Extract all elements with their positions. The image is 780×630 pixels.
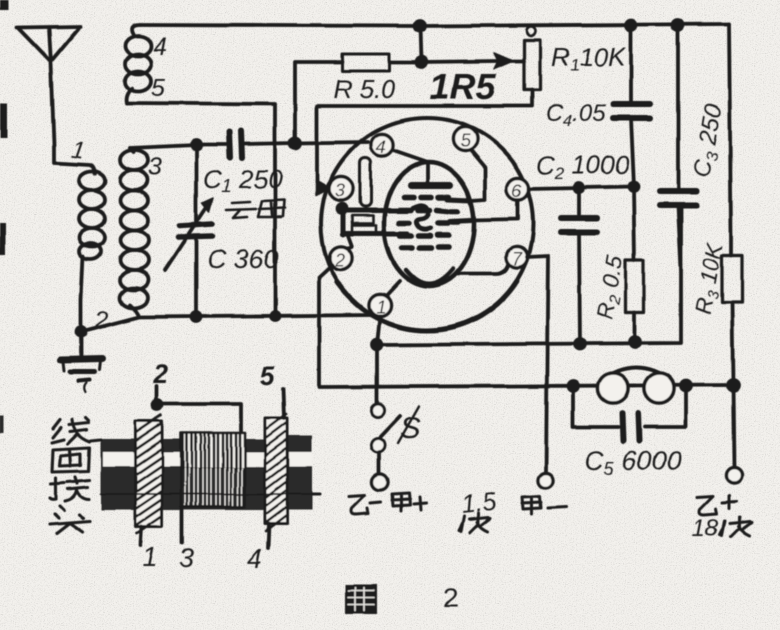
svg-text:4: 4 [247,543,262,573]
junction dot R3 bottom [728,380,739,391]
svg-text:R 5.0: R 5.0 [333,74,396,104]
pin 5 [453,127,477,151]
label C 360 [207,244,279,274]
coil former axis line [101,493,312,495]
pin 2 [330,247,353,271]
pin 6 [507,178,529,201]
svg-text:2: 2 [152,359,168,389]
junction top rail to R5 drop [415,21,425,31]
label 1.5 伏 [460,487,498,518]
coil former lead 5 [283,389,284,418]
svg-text:4: 4 [376,137,386,157]
svg-text:3: 3 [148,153,162,181]
svg-text:S: S [400,410,421,445]
junction dot C360 bottom [192,313,201,322]
label 5 tickler [151,74,165,102]
coil former left flange [135,415,162,534]
tube grid dashes row2 [400,210,458,211]
label 1 former [142,542,157,572]
capacitor C1 [229,131,242,158]
junction dot C2 bottom [575,339,585,349]
coil former lead 3 [180,507,184,543]
capacitor C2 [561,189,597,343]
inductor antenna coil [79,172,105,332]
svg-text:2: 2 [334,250,345,270]
resistor R5.0 [295,54,422,143]
junction dot R5 row [417,57,427,67]
tube filament arc [406,269,453,284]
label 乙-甲+ [349,493,427,514]
svg-text:7: 7 [512,249,523,269]
svg-text:R110K: R110K [551,42,627,75]
coil former lead 4 [268,524,269,548]
inductor tuning coil 3 [120,148,148,317]
label 乙+ 18伏 [697,496,736,515]
tube grid dashes row1 [404,194,449,200]
wire pin1 internal [386,281,400,296]
label 1R5 [430,66,497,107]
junction dot R5 drop on grid row [290,138,300,148]
coil former right flange [265,414,287,531]
ground [61,333,102,392]
junction dot pin1 [372,340,382,350]
capacitor C5 [573,386,686,441]
pin 1 [369,294,391,317]
tube plate bar and lead to pin 4 [393,150,450,185]
tube grid dashes row4 [400,235,448,236]
junction dot R2 bottom [630,337,640,347]
pin 7 [507,247,528,270]
label R3 10K [689,239,731,318]
label 3 former [179,543,194,573]
label 1 antenna [70,136,87,165]
label 4 tickler [153,33,167,61]
coil former body [91,435,320,510]
resistor R1 [317,27,540,183]
label 4 former [247,543,262,573]
svg-text:1R5: 1R5 [430,66,497,107]
tube 1R5 envelope [321,118,533,331]
svg-text:C 360: C 360 [207,244,279,274]
wire pin7 internal [458,263,509,274]
label 5 former [260,361,276,391]
wire pin6 output row [529,187,634,189]
label R2 0.5 [591,253,632,321]
junction dot tickler bottom [271,312,279,320]
svg-text:C1 250: C1 250 [203,164,283,196]
svg-text:1: 1 [376,297,386,317]
wire tickler bottom feedback [127,103,275,316]
svg-text:5: 5 [460,131,471,151]
switch S [371,404,400,475]
tube bar to pin 5 [448,199,471,200]
svg-text:1: 1 [142,542,157,572]
label 线圈接头 vertical [50,418,90,533]
label C5 6000 [585,446,682,479]
caption number 2 [443,583,458,613]
coil former winding [181,433,245,507]
capacitor C4 column [613,25,650,260]
tube anode curl [413,205,430,229]
label R1 10K [551,42,627,75]
wire R5 row to R1 with arrow [422,53,524,69]
antenna [17,27,95,174]
svg-text:6: 6 [512,181,523,201]
label 甲一 [523,496,566,514]
wire right rail [729,24,734,467]
label C2 1000 [536,150,630,183]
scan edge marks [0,0,9,433]
junction dot phones right [681,381,691,391]
wire pin6 internal [471,200,518,220]
junction dot C3 top [673,20,683,30]
tube grid dashes row5 [402,247,448,248]
junction dot C4 top [626,20,636,30]
svg-text:C4.05: C4.05 [546,100,606,130]
junction dot C2 top [575,184,584,193]
svg-text:C5 6000: C5 6000 [585,446,682,479]
svg-text:3: 3 [179,543,194,573]
wire pin2 to headphone row [319,265,733,387]
wire pin1 down and output row [377,208,681,403]
junction node ground-coil2 [77,328,86,337]
capacitor C3 column [660,25,696,270]
label 2 former [152,359,168,389]
label S [398,406,421,445]
label C3 250 [688,102,730,180]
headphones [598,368,674,404]
pin 4 [371,134,393,157]
svg-text:5: 5 [260,361,276,391]
resistor R2 [626,260,644,342]
resistor R3 [722,235,742,385]
tube internal oval [384,162,474,286]
wire pin7 to battery terminal [527,256,548,472]
wire grid row coil3 to pin 4 [130,142,368,148]
terminal A- B+ [372,474,388,490]
label C1 250 [203,164,283,196]
terminal B plus [726,467,742,483]
svg-text:4: 4 [153,33,167,61]
svg-text:C2 1000: C2 1000 [536,150,630,183]
wire top rail [140,24,729,26]
label R 5.0 [333,74,396,104]
wire drop rail to R5 row [421,26,422,62]
arrow into pin 3 [316,180,330,196]
svg-text:5: 5 [151,74,165,102]
terminal jia minus [539,473,554,488]
caption tu 2 [345,585,377,614]
junction dot C360 top [192,141,201,150]
junction dot C4-R2 [630,183,639,192]
tube left electrode structure [338,158,408,253]
label mica 云母 [226,200,285,218]
label 3 coil [148,153,162,181]
inductor tickler coil 4-5 [125,25,151,103]
label C4 .05 [546,100,606,130]
svg-text:3: 3 [335,181,345,201]
tube bar to pin 6 [450,220,471,221]
coil former lead 2 [153,386,242,432]
label 2 coil tap [94,307,108,334]
tube grid dashes row3 [399,222,458,223]
pin 3 [329,177,353,201]
capacitor C360 variable [165,145,213,316]
svg-text:18: 18 [692,515,719,542]
svg-text:2: 2 [443,583,458,613]
junction dot phones left [568,381,578,391]
wire pin5 internal [470,150,485,200]
wire bottom tuning rail [81,315,374,332]
coil former lead 1 [140,527,141,546]
